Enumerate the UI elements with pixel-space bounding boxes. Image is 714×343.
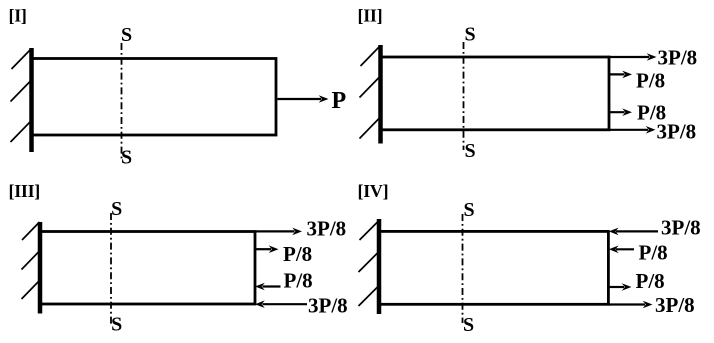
force arrow P/8 lower II (rightward) [608,108,632,116]
svg-text:S: S [121,147,132,169]
section line S-S I [121,43,123,161]
svg-text:3P/8: 3P/8 [657,120,697,144]
force arrow 3P/8 top IV (leftward) [609,228,658,236]
section line S-S III [110,213,112,324]
svg-text:P/8: P/8 [284,269,313,293]
svg-text:S: S [121,24,132,46]
svg-text:P: P [332,88,347,114]
svg-text:S: S [463,314,474,336]
force arrow 3P/8 bottom III (leftward) [255,300,307,308]
section line S-S II [463,42,465,150]
force arrow 3P/8 top II (rightward) [608,53,657,61]
force arrow 3P/8 bottom II (rightward) [608,126,656,134]
force arrow P/8 upper III (rightward) [255,245,279,253]
svg-text:3P/8: 3P/8 [658,46,698,70]
svg-text:[IV]: [IV] [358,181,389,201]
bar IV [379,231,608,304]
svg-text:[III]: [III] [9,181,41,201]
bar III [40,232,255,305]
fixed support wall II [360,45,381,144]
fixed support wall I [11,48,32,152]
svg-text:S: S [111,198,122,220]
force arrow 3P/8 bottom IV (rightward) [609,301,653,309]
fixed support wall III [22,222,41,314]
force arrow P [278,95,329,103]
svg-text:S: S [463,199,474,221]
svg-text:S: S [464,140,475,162]
svg-text:P/8: P/8 [636,269,665,293]
force arrow P/8 lower III (leftward) [255,283,281,291]
svg-text:3P/8: 3P/8 [308,294,348,318]
bar I [31,59,276,136]
svg-text:[I]: [I] [9,6,27,26]
section line S-S IV [462,214,464,323]
fixed support wall IV [359,219,380,314]
svg-text:S: S [464,24,475,46]
svg-text:S: S [111,314,122,336]
svg-text:P/8: P/8 [283,242,312,266]
force arrow 3P/8 top III (rightward) [255,228,302,236]
svg-text:P/8: P/8 [636,69,665,93]
force arrow P/8 lower IV (rightward) [609,283,632,291]
svg-text:3P/8: 3P/8 [661,215,701,239]
svg-text:3P/8: 3P/8 [307,217,347,241]
svg-text:P/8: P/8 [639,241,668,265]
svg-text:3P/8: 3P/8 [655,293,695,317]
bar II [380,57,609,130]
svg-text:[II]: [II] [358,6,383,26]
force arrow P/8 upper II (rightward) [608,71,632,79]
force arrow P/8 upper IV (leftward) [609,246,634,254]
